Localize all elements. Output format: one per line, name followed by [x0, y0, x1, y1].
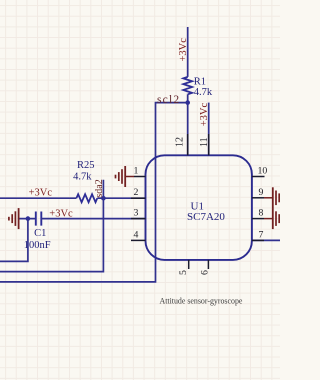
wire +3Vc vertical to R1 [187, 27, 189, 77]
pin 10 stub [252, 176, 265, 178]
resistor R1 (vertical zigzag) [183, 77, 192, 94]
node C1/gnd junction dot [26, 216, 31, 221]
svg-text:2: 2 [134, 187, 139, 198]
wire scl2 (junction left, down past chip, exits left) [0, 103, 188, 282]
pin 5 stub [188, 260, 190, 269]
svg-text:11: 11 [199, 137, 210, 147]
pin 12 stub [187, 134, 189, 155]
resistor R25 (horizontal zigzag) [76, 194, 97, 202]
capacitor C1 plates [36, 212, 42, 226]
pin 6 stub [207, 260, 209, 269]
wire sda2 (stub up, down then exits left) [0, 180, 103, 272]
ground symbol at C1 left [9, 208, 19, 229]
svg-text:7: 7 [259, 229, 264, 240]
svg-text:R1: R1 [194, 77, 206, 88]
svg-text:4.7k: 4.7k [73, 172, 92, 183]
svg-text:sda2: sda2 [94, 179, 105, 197]
svg-text:5: 5 [178, 270, 189, 275]
wire +3Vc row to R25 [0, 197, 76, 199]
svg-text:+3Vc: +3Vc [178, 38, 189, 62]
svg-text:SC7A20: SC7A20 [187, 211, 225, 223]
wire C1 right plate to chip pin 3 [41, 218, 145, 220]
wire chip pin 7 exits right [252, 239, 280, 241]
svg-text:8: 8 [259, 208, 264, 219]
wire R25 to chip pin 2 [97, 197, 145, 199]
svg-text:9: 9 [259, 187, 264, 198]
ground symbol at pin 8 [264, 208, 279, 229]
wire R1 bottom to chip pin 12 [187, 94, 189, 155]
svg-text:+3Vc: +3Vc [199, 103, 210, 127]
pin 1 stub [134, 176, 146, 178]
svg-text:Attitude sensor-gyroscope: Attitude sensor-gyroscope [160, 296, 243, 305]
pin 7 stub [252, 239, 264, 241]
svg-text:scl2: scl2 [157, 94, 180, 106]
node sda2 junction dot [101, 196, 106, 201]
svg-text:R25: R25 [77, 160, 95, 171]
pin 8 stub [252, 218, 264, 220]
svg-text:4: 4 [134, 229, 139, 240]
node scl2 junction dot [185, 100, 190, 105]
pin 2 stub [131, 197, 146, 199]
svg-text:12: 12 [174, 137, 185, 147]
op-amp U1 chip body SC7A20 [146, 155, 252, 260]
ground symbol at pin 9 [264, 187, 279, 208]
svg-text:100nF: 100nF [24, 240, 51, 251]
svg-text:+3Vc: +3Vc [49, 209, 73, 220]
pin 3 stub [131, 218, 146, 220]
svg-text:C1: C1 [34, 228, 46, 239]
wire junction down, exits left [0, 219, 28, 262]
svg-text:6: 6 [200, 270, 211, 275]
wire +3Vc to chip pin 11 [208, 103, 210, 156]
wire ground to C1 left plate [19, 218, 35, 220]
pin 11 stub [208, 134, 210, 155]
svg-text:1: 1 [134, 166, 139, 177]
svg-text:10: 10 [258, 166, 268, 177]
pin 4 stub [131, 239, 146, 241]
svg-text:4.7k: 4.7k [194, 87, 213, 98]
svg-text:3: 3 [134, 208, 139, 219]
svg-text:+3Vc: +3Vc [29, 187, 53, 198]
pin 9 stub [252, 197, 264, 199]
ground symbol at pin 1 [116, 166, 135, 187]
